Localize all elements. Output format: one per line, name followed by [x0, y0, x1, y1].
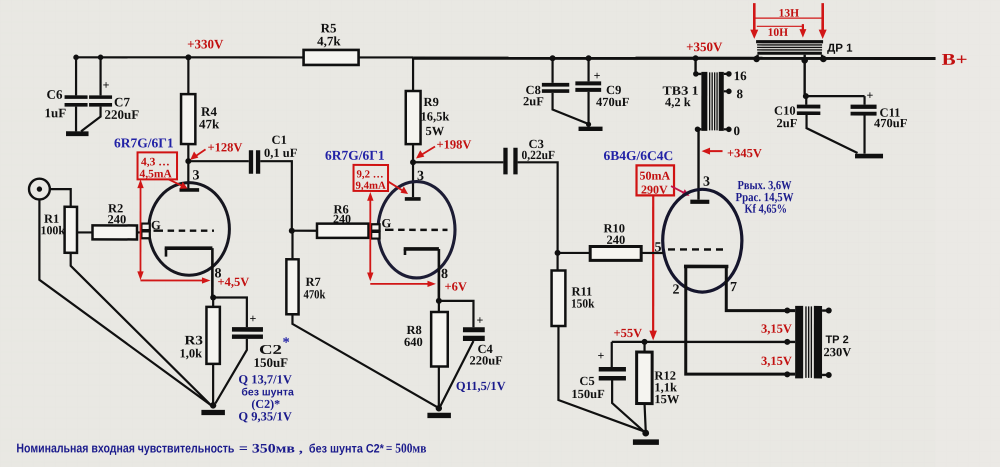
ground C6 C7	[66, 131, 89, 136]
node grid2	[289, 228, 295, 234]
capacitor C10	[774, 96, 865, 153]
svg-text:150k: 150k	[571, 297, 595, 311]
svg-text:*: *	[282, 335, 289, 351]
svg-text:0,1 uF: 0,1 uF	[264, 146, 298, 160]
capacitor C7	[81, 57, 139, 131]
resistor R8	[404, 301, 448, 406]
svg-text:R9: R9	[424, 95, 439, 109]
wire R5 to R9 node	[359, 56, 414, 58]
svg-text:290V: 290V	[641, 183, 668, 197]
svg-text:13Н: 13Н	[779, 8, 800, 20]
svg-text:Q11,5/1V: Q11,5/1V	[456, 379, 506, 393]
node cathode V1	[210, 294, 216, 300]
anode V1	[180, 188, 200, 192]
svg-text:+: +	[103, 78, 110, 92]
dim 10H arrow	[757, 24, 807, 39]
svg-text:47k: 47k	[199, 116, 220, 131]
svg-text:+: +	[597, 349, 604, 363]
svg-text:+: +	[476, 313, 483, 327]
capacitor C5	[571, 342, 643, 431]
grid V2	[385, 229, 448, 231]
input jack J1	[29, 179, 71, 207]
ground stage2	[427, 405, 451, 418]
svg-text:+6V: +6V	[444, 279, 466, 293]
node choke mid	[801, 57, 808, 64]
svg-text:2uF: 2uF	[523, 94, 544, 108]
choke DR1	[756, 40, 853, 96]
svg-text:640: 640	[404, 335, 423, 349]
svg-text:Kf 4,65%: Kf 4,65%	[745, 202, 788, 216]
capacitor C4	[439, 301, 503, 406]
node R11	[555, 250, 561, 256]
capacitor C11	[851, 88, 908, 154]
capacitor C2	[213, 297, 290, 403]
svg-text:2uF: 2uF	[777, 116, 798, 130]
anode V2	[405, 197, 421, 201]
node R12	[642, 339, 648, 345]
red box V1 bias	[138, 152, 178, 180]
svg-text:3,15V: 3,15V	[761, 322, 792, 336]
svg-text:10Н: 10Н	[768, 27, 789, 39]
ground stage3	[633, 430, 659, 445]
grid V3	[668, 248, 727, 250]
resistor R10	[558, 221, 664, 260]
svg-text:Номинальная входная чувствител: Номинальная входная чувствительность	[16, 441, 234, 455]
svg-text:3,15V: 3,15V	[761, 354, 792, 368]
svg-text:G: G	[382, 216, 392, 230]
node choke left	[753, 56, 760, 63]
svg-text:G: G	[151, 218, 161, 232]
node C10	[803, 93, 809, 99]
svg-text:15W: 15W	[654, 392, 680, 406]
resistor R5	[304, 20, 359, 65]
svg-text:6R7G/6Г1: 6R7G/6Г1	[114, 135, 174, 150]
svg-text:1,0k: 1,0k	[179, 346, 202, 360]
svg-text:240: 240	[108, 212, 127, 226]
svg-text:= 350мв ,: = 350мв ,	[239, 440, 303, 455]
tube V2 envelope	[378, 182, 455, 278]
dim arrow V2 horizontal	[370, 281, 436, 287]
node C6	[73, 55, 79, 61]
svg-text:16: 16	[734, 68, 748, 83]
node cathode V2	[436, 298, 442, 304]
svg-text:4,5mA: 4,5mA	[140, 168, 173, 180]
wire B+ rail	[413, 57, 936, 60]
svg-text:0,22uF: 0,22uF	[522, 148, 556, 162]
svg-text:9,2 …: 9,2 …	[357, 168, 384, 180]
anode V3	[690, 200, 709, 204]
svg-text:Q 13,7/1V: Q 13,7/1V	[238, 372, 291, 386]
svg-text:+: +	[867, 88, 874, 102]
node C8 rail	[550, 55, 556, 61]
resistor R2	[77, 201, 140, 239]
svg-text:без шунта C2*: без шунта C2*	[309, 442, 384, 456]
svg-text:8: 8	[737, 86, 744, 101]
wire R1 to ground	[71, 253, 211, 405]
svg-text:9,4mA: 9,4mA	[356, 180, 386, 192]
grid V1	[154, 229, 215, 231]
svg-text:+55V: +55V	[613, 326, 642, 340]
red cathode current line	[649, 195, 657, 340]
wire +55V center tap	[612, 341, 795, 343]
capacitor C6	[45, 57, 88, 131]
transformer TP2	[784, 306, 851, 379]
transformer TVZ1	[663, 58, 748, 199]
dim arrow V2 vertical	[367, 192, 373, 281]
bottom note	[16, 440, 426, 455]
capacitor C8	[523, 58, 589, 124]
svg-text:50mA: 50mA	[640, 169, 671, 183]
red box V2 bias	[354, 165, 389, 192]
svg-text:+350V: +350V	[686, 39, 723, 54]
resistor R9	[406, 58, 450, 197]
svg-text:4,2 k: 4,2 k	[665, 95, 691, 109]
filament V3	[684, 266, 795, 374]
ground C8 C9	[579, 122, 603, 131]
svg-text:ДР 1: ДР 1	[827, 43, 853, 55]
svg-text:+330V: +330V	[187, 36, 224, 51]
svg-text:150uF: 150uF	[571, 387, 605, 401]
node TVZ rail	[693, 55, 699, 61]
dim arrow V1 horizontal	[140, 277, 210, 283]
cathode V2	[404, 249, 407, 255]
tube V1 envelope	[149, 183, 230, 276]
svg-text:220uF: 220uF	[105, 107, 140, 122]
svg-text:7: 7	[730, 280, 737, 295]
label +198V with arrow	[416, 137, 471, 158]
resistor R4	[181, 57, 220, 188]
grid connector V2	[371, 224, 379, 238]
resistor R12	[637, 342, 680, 431]
svg-text:C5: C5	[579, 374, 594, 388]
svg-text:0: 0	[734, 123, 741, 138]
svg-text:R3: R3	[184, 332, 203, 347]
svg-text:470k: 470k	[303, 287, 325, 301]
svg-text:+345V: +345V	[727, 146, 762, 160]
svg-text:4,3 …: 4,3 …	[141, 156, 170, 168]
svg-text:2: 2	[672, 283, 679, 298]
node C9 rail	[586, 55, 592, 61]
resistor R1	[40, 207, 77, 253]
dim 13H arrows	[750, 3, 826, 39]
svg-text:C1: C1	[272, 133, 287, 147]
tube V3 envelope	[663, 189, 742, 292]
resistor R6	[292, 202, 372, 237]
svg-text:3: 3	[193, 168, 200, 183]
svg-text:220uF: 220uF	[469, 353, 503, 367]
label +345V with arrow	[702, 146, 762, 160]
resistor R3	[179, 297, 219, 402]
red box V3 op point	[637, 165, 675, 196]
capacitor C9	[575, 58, 629, 124]
capacitor C1	[188, 133, 297, 231]
svg-text:5W: 5W	[426, 124, 445, 138]
dim arrow V1 vertical	[137, 179, 143, 280]
resistor R7	[286, 231, 438, 408]
ground C10 C11	[855, 154, 883, 159]
svg-text:C6: C6	[47, 87, 63, 102]
wire +330V rail left	[76, 56, 304, 58]
svg-text:+198V: +198V	[437, 137, 472, 151]
svg-text:470uF: 470uF	[596, 95, 630, 109]
svg-text:3: 3	[703, 175, 710, 190]
svg-text:+128V: +128V	[208, 140, 243, 154]
arrow red box V1 to anode	[169, 179, 188, 188]
cathode V1	[165, 248, 168, 256]
arrow red box V2 to anode	[388, 181, 408, 194]
svg-text:16,5k: 16,5k	[421, 109, 450, 123]
node +198V	[410, 159, 416, 165]
svg-text:+4,5V: +4,5V	[217, 275, 249, 289]
svg-text:100k: 100k	[40, 223, 65, 237]
capacitor C3	[413, 137, 558, 253]
svg-text:3: 3	[417, 169, 424, 184]
svg-text:240: 240	[333, 212, 351, 226]
label +128V with arrow	[190, 140, 242, 160]
svg-text:470uF: 470uF	[874, 116, 908, 130]
svg-text:230V: 230V	[823, 345, 851, 359]
svg-text:Q 9,35/1V: Q 9,35/1V	[238, 409, 291, 423]
grid connector V1	[141, 224, 149, 239]
svg-text:6B4G/6C4C: 6B4G/6C4C	[604, 148, 674, 163]
svg-text:240: 240	[606, 233, 625, 247]
svg-text:1uF: 1uF	[45, 105, 67, 120]
svg-text:+: +	[594, 69, 601, 83]
node C7	[98, 55, 104, 61]
arrow red box V3 to anode	[671, 186, 690, 196]
wire jack to ground	[39, 199, 211, 405]
svg-text:+: +	[249, 311, 256, 325]
node +330V	[185, 54, 191, 60]
resistor R11	[552, 253, 644, 431]
node choke right	[820, 56, 827, 63]
ground stage1	[201, 402, 225, 415]
svg-text:6R7G/6Г1: 6R7G/6Г1	[325, 148, 385, 163]
svg-text:B+: B+	[942, 50, 968, 69]
svg-text:= 500мв: = 500мв	[386, 441, 427, 456]
svg-text:4,7k: 4,7k	[317, 33, 341, 48]
svg-text:150uF: 150uF	[253, 355, 288, 370]
node +128V	[185, 158, 191, 164]
